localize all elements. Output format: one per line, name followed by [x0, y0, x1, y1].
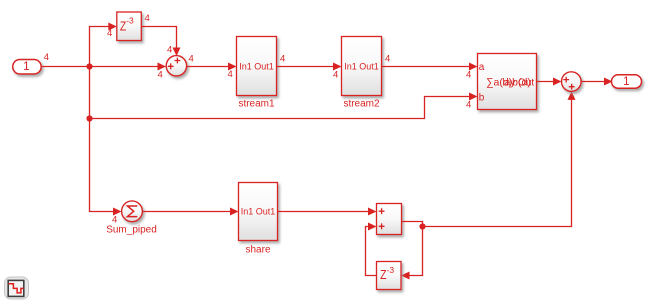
outport block 1 (right oval)	[612, 75, 642, 89]
label 4 at stream2 input	[333, 70, 338, 81]
wire inport to node A	[42, 66, 90, 68]
svg-text:stream2: stream2	[343, 99, 380, 110]
wire node C down to delay Z-3 (feedback, right input)	[401, 227, 423, 280]
svg-text:4: 4	[466, 100, 471, 111]
subsystem stream2	[342, 37, 382, 110]
wire adder output to node C	[402, 222, 423, 227]
svg-text:4: 4	[385, 54, 390, 65]
sum block Add_out (circle, inputs left and bottom)	[562, 72, 582, 92]
wire stream2 to MAC port a	[382, 63, 478, 71]
svg-text:a: a	[479, 62, 485, 73]
inport block 1 (left oval)	[13, 59, 42, 74]
svg-text:4: 4	[44, 52, 49, 63]
sum block Sum_piped (circle with sigma)	[106, 201, 157, 236]
wire node A up to delay Z-3 input	[90, 23, 117, 67]
svg-text:Sum_piped: Sum_piped	[106, 225, 157, 236]
label 4 at stream1 input	[228, 69, 233, 80]
wire Sum_piped to subsystem share	[142, 208, 238, 216]
label 4 at MAC a input	[466, 70, 471, 81]
adder block Add1 (square, + +)	[377, 204, 402, 235]
svg-text:4: 4	[158, 70, 163, 81]
label 4 at stream2 output	[385, 54, 390, 65]
svg-text:stream1: stream1	[238, 99, 275, 110]
svg-text:1: 1	[23, 59, 30, 73]
sum block Add_stream (circle, inputs top and left)	[166, 56, 186, 76]
wire sum to outport	[581, 78, 612, 86]
wire node A to sum Add_stream left input	[90, 63, 167, 71]
subsystem share	[239, 183, 278, 256]
label 4 at Sum_piped input	[112, 214, 117, 225]
label 4 at sum top input	[167, 44, 172, 55]
svg-text:4: 4	[333, 70, 338, 81]
svg-text:In1 Out1: In1 Out1	[241, 207, 276, 217]
svg-text:In1 Out1: In1 Out1	[239, 61, 274, 71]
sample time legend badge (bottom left)	[5, 277, 29, 299]
svg-text:4: 4	[189, 54, 194, 65]
node B (junction on vertical feed)	[86, 115, 92, 121]
node C (junction)	[419, 223, 425, 229]
delay block Z^-3 (bottom, mirrored)	[377, 262, 402, 290]
wire delay to sum top input	[141, 27, 180, 57]
wire MAC output to sum Add_out left input	[537, 78, 562, 86]
wire node A down to Sum_piped	[90, 67, 122, 216]
label 4 at stream1 output	[280, 54, 285, 65]
MAC block U1 (sum a(d)b(d))	[478, 54, 537, 110]
wire stream1 to stream2	[277, 63, 342, 71]
subsystem stream1	[237, 37, 277, 110]
wire delay feedback to adder second input	[366, 223, 377, 276]
label 4 at sum output	[189, 54, 194, 65]
wire share to adder first input	[278, 208, 377, 216]
svg-text:4: 4	[107, 28, 112, 39]
label 4 on inport wire	[44, 52, 49, 63]
label 4 at delay input	[107, 28, 112, 39]
svg-text:4: 4	[167, 44, 172, 55]
svg-text:-3: -3	[387, 265, 395, 275]
svg-text:4: 4	[280, 54, 285, 65]
svg-text:4: 4	[228, 69, 233, 80]
wire sum to subsystem stream1	[187, 63, 237, 71]
svg-text:lay Out: lay Out	[503, 78, 535, 89]
svg-text:-3: -3	[126, 15, 134, 25]
label 4 at delay output	[145, 13, 150, 24]
node A (junction)	[86, 63, 92, 69]
svg-text:4: 4	[145, 13, 150, 24]
wire node B to MAC port b	[90, 93, 478, 119]
svg-text:share: share	[245, 245, 270, 256]
svg-text:4: 4	[466, 70, 471, 81]
label 4 at sum left input	[158, 70, 163, 81]
svg-text:b: b	[479, 92, 485, 103]
delay block Z^-3 (top)	[117, 12, 142, 41]
svg-text:1: 1	[623, 76, 629, 88]
svg-text:In1 Out1: In1 Out1	[344, 61, 379, 71]
label 4 at MAC b input	[466, 100, 471, 111]
wire node C to sum Add_out bottom input	[423, 91, 576, 226]
